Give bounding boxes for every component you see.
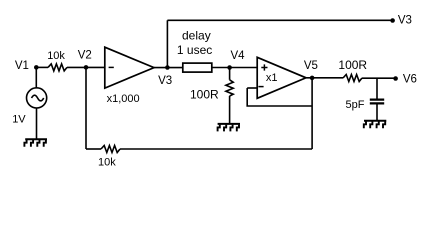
ground G1 bar [25,138,47,140]
voltage source V1 sine [32,95,44,101]
svg-text:V6: V6 [403,74,417,86]
wire V5 to R3 [306,77,343,79]
ground G2 bar [218,123,240,125]
resistor R1 10k zigzag [48,64,67,71]
ground G3 teeth [364,122,385,129]
ground G1 teeth [24,140,46,147]
node V4 junction dot [227,65,232,70]
op-amp U2 triangle [257,57,306,98]
wire V1 to R1 [36,66,48,68]
wire V4 down to R2 [229,68,231,80]
svg-text:x1,000: x1,000 [107,93,140,105]
node V5 junction dot [310,76,315,81]
terminal V6 dot [393,76,398,81]
ground G3 bar [364,120,386,122]
svg-text:1 usec: 1 usec [177,43,212,57]
svg-text:V2: V2 [78,50,92,62]
node V1 junction dot [34,65,39,70]
node V2 junction dot [84,65,89,70]
node V3 junction dot [165,65,170,70]
resistor R2 100R vertical zigzag [226,80,233,96]
op-amp U2 minus sign [258,86,263,88]
wire U2 feedback loop [247,88,312,106]
svg-text:10k: 10k [47,50,65,62]
svg-text:V1: V1 [15,60,29,72]
svg-text:10k: 10k [98,157,116,169]
voltage source V1 stem bottom [36,108,38,139]
wire V3 up to top rail [166,20,168,67]
wire C1 to ground G3 [376,105,378,121]
wire R2 to ground G2 [229,96,231,124]
voltage source V1 stem top [35,67,37,88]
resistor R3 100R zigzag [343,75,362,82]
wire feedback riser to V2 [85,67,87,149]
svg-text:V3: V3 [398,15,412,27]
voltage source V1 circle [26,88,46,108]
svg-text:V3: V3 [158,75,172,87]
svg-text:5pF: 5pF [346,99,365,111]
terminal V3 dot top right [390,18,395,23]
wire bottom feedback rail [120,148,312,150]
op-amp U1 triangle [105,47,154,88]
wire U2 output down to bottom rail [311,78,313,149]
op-amp U1 minus sign [109,66,114,68]
wire delay box to op-amp U2 [212,67,257,69]
wire R4 to V2 riser [86,148,101,150]
wire R3 to V6 terminal [362,77,396,79]
ground G2 teeth [218,125,239,132]
svg-text:100R: 100R [338,58,367,72]
resistor R4 10k zigzag [101,146,120,153]
wire R1 to op-amp U1 input [67,66,105,68]
wire U2 inverting input stub [247,87,257,89]
svg-text:100R: 100R [190,87,219,101]
svg-text:delay: delay [182,29,211,43]
capacitor C1 plates [370,100,384,104]
wire junction down to capacitor C1 [376,78,378,99]
delay line box [183,63,212,72]
svg-text:V5: V5 [304,60,318,72]
svg-text:x1: x1 [266,72,278,84]
svg-text:1V: 1V [12,114,26,126]
svg-text:V4: V4 [231,50,246,62]
op-amp U2 plus sign [261,64,267,70]
wire U1 output to delay box [154,67,183,69]
wire top rail to V3 terminal [167,19,392,21]
